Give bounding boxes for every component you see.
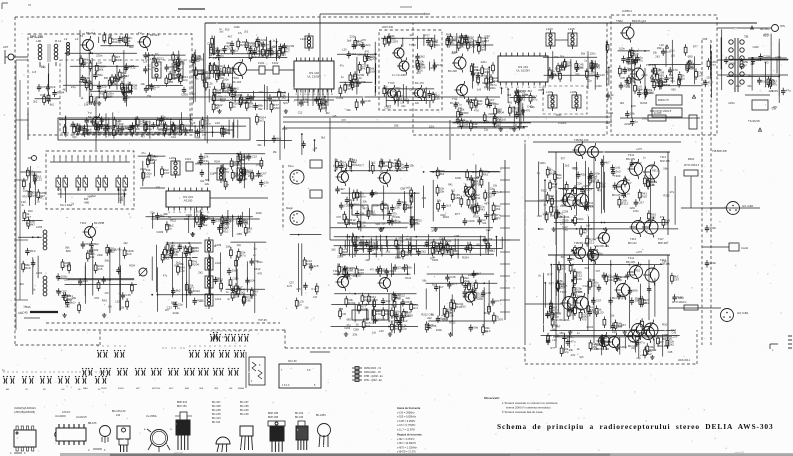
svg-text:4k7: 4k7 <box>350 198 355 202</box>
svg-text:8k2: 8k2 <box>494 217 499 221</box>
svg-text:C12: C12 <box>589 240 595 244</box>
svg-text:100n: 100n <box>352 222 359 226</box>
svg-text:R10: R10 <box>306 262 312 266</box>
svg-text:SFC-50: SFC-50 <box>288 360 297 363</box>
svg-text:R10: R10 <box>320 101 326 105</box>
svg-text:8k2: 8k2 <box>94 242 99 246</box>
svg-text:TR: TR <box>744 35 749 39</box>
svg-text:15k: 15k <box>409 164 414 168</box>
svg-text:R204: R204 <box>214 161 220 164</box>
svg-text:R41: R41 <box>322 107 328 111</box>
svg-text:T413: T413 <box>660 155 666 159</box>
svg-text:4k7: 4k7 <box>462 294 467 298</box>
svg-text:220n: 220n <box>273 106 280 110</box>
svg-text:22p: 22p <box>402 326 407 330</box>
svg-text:R204: R204 <box>427 44 433 47</box>
svg-text:3n3: 3n3 <box>604 339 609 343</box>
svg-text:C12: C12 <box>171 135 177 139</box>
svg-text:56k: 56k <box>173 253 178 257</box>
svg-text:R10: R10 <box>100 91 105 95</box>
svg-text:3n3: 3n3 <box>605 343 610 347</box>
svg-text:56k: 56k <box>663 167 668 171</box>
svg-text:C67: C67 <box>385 160 391 164</box>
svg-text:MUTING: MUTING <box>152 388 161 390</box>
svg-text:R204: R204 <box>587 325 594 329</box>
svg-text:BUC: BUC <box>169 388 174 390</box>
svg-text:22p: 22p <box>631 346 636 350</box>
svg-text:15k: 15k <box>344 164 349 168</box>
svg-text:R41: R41 <box>115 58 121 62</box>
svg-text:R10: R10 <box>484 311 490 315</box>
svg-text:AWS-303-1: AWS-303-1 <box>678 359 691 362</box>
svg-text:100n: 100n <box>619 47 625 51</box>
svg-text:C12: C12 <box>485 34 491 38</box>
svg-text:5p6: 5p6 <box>384 206 389 210</box>
svg-text:R41: R41 <box>508 101 513 104</box>
svg-text:R204: R204 <box>30 172 38 176</box>
svg-text:47u: 47u <box>670 190 675 194</box>
svg-text:R204: R204 <box>348 301 356 305</box>
svg-text:33k: 33k <box>234 295 239 299</box>
svg-text:C12: C12 <box>207 41 212 45</box>
svg-text:22p: 22p <box>617 278 622 282</box>
svg-text:12k: 12k <box>422 196 427 200</box>
svg-text:4k7: 4k7 <box>351 52 356 56</box>
svg-text:C12: C12 <box>37 178 43 182</box>
svg-text:L20: L20 <box>589 74 594 78</box>
svg-text:1u: 1u <box>458 102 462 106</box>
svg-text:15k: 15k <box>630 112 635 116</box>
svg-text:BDP-395: BDP-395 <box>268 412 279 415</box>
svg-text:C88: C88 <box>353 327 359 331</box>
svg-text:R312: R312 <box>344 273 351 277</box>
svg-text:8k2: 8k2 <box>451 190 456 193</box>
svg-text:C45: C45 <box>23 189 28 193</box>
svg-text:C12: C12 <box>225 44 230 48</box>
svg-text:R10: R10 <box>116 119 121 123</box>
svg-text:220n: 220n <box>624 122 631 126</box>
svg-text:GO 4-8Ω: GO 4-8Ω <box>742 204 753 208</box>
svg-text:3n3: 3n3 <box>402 207 407 210</box>
svg-text:47u: 47u <box>155 52 160 56</box>
svg-text:5p6: 5p6 <box>669 74 674 77</box>
svg-text:1u: 1u <box>132 126 136 130</box>
svg-text:33k: 33k <box>146 168 151 172</box>
svg-text:x-5.95 = 6.2MHz: x-5.95 = 6.2MHz <box>397 420 416 423</box>
svg-text:L7: L7 <box>150 57 154 61</box>
svg-text:BF-194: BF-194 <box>295 412 304 415</box>
svg-text:47u: 47u <box>638 59 643 63</box>
svg-text:C67: C67 <box>596 270 601 273</box>
svg-text:8k2: 8k2 <box>200 220 205 224</box>
svg-text:WD: WD <box>556 113 562 117</box>
svg-text:L20: L20 <box>598 311 603 315</box>
svg-text:C12: C12 <box>583 284 589 288</box>
svg-text:WS: WS <box>780 24 785 28</box>
svg-text:C12: C12 <box>577 274 583 278</box>
svg-text:R312: R312 <box>541 189 547 192</box>
svg-text:4k7: 4k7 <box>605 160 610 164</box>
svg-text:1k: 1k <box>254 292 258 296</box>
svg-text:C88: C88 <box>64 278 70 282</box>
svg-text:4k7: 4k7 <box>228 283 233 287</box>
svg-text:22p: 22p <box>446 311 451 315</box>
svg-text:R10: R10 <box>431 66 436 70</box>
svg-text:C12: C12 <box>612 330 618 334</box>
svg-text:R312: R312 <box>652 169 659 173</box>
svg-text:C88: C88 <box>662 260 667 264</box>
svg-text:47u: 47u <box>570 340 575 344</box>
svg-text:2k2: 2k2 <box>450 298 455 302</box>
svg-text:R41: R41 <box>102 298 108 302</box>
svg-text:MEBA: MEBA <box>238 387 245 390</box>
svg-text:22p: 22p <box>575 73 580 76</box>
svg-text:C88: C88 <box>237 232 243 236</box>
svg-text:1n5: 1n5 <box>145 175 150 179</box>
svg-text:220n: 220n <box>148 154 154 157</box>
svg-text:L20: L20 <box>98 126 103 130</box>
svg-text:2k2: 2k2 <box>669 342 674 346</box>
svg-text:56k: 56k <box>555 66 560 70</box>
svg-text:BD-109: BD-109 <box>626 260 635 264</box>
svg-text:Regiuni de frecventa: Regiuni de frecventa <box>397 434 422 437</box>
svg-text:+27V: +27V <box>636 250 642 254</box>
svg-text:-10V: -10V <box>570 354 576 357</box>
svg-text:220n: 220n <box>258 91 264 94</box>
svg-text:x-f63 = 10.66kHz: x-f63 = 10.66kHz <box>397 442 417 445</box>
svg-text:12k: 12k <box>381 222 386 226</box>
svg-text:10k: 10k <box>94 248 99 252</box>
svg-text:R312: R312 <box>405 277 411 280</box>
svg-text:C12: C12 <box>109 249 115 253</box>
svg-text:R41: R41 <box>475 196 481 200</box>
svg-text:R312: R312 <box>449 321 456 325</box>
svg-text:2k2: 2k2 <box>249 95 254 99</box>
svg-text:22p: 22p <box>150 211 155 215</box>
svg-text:R41: R41 <box>483 173 489 177</box>
svg-text:1n5: 1n5 <box>287 284 292 288</box>
svg-text:C67: C67 <box>215 104 221 108</box>
svg-text:BF-214: BF-214 <box>86 31 96 35</box>
svg-text:Schema de principiu a radiorec: Schema de principiu a radioreceptorului … <box>497 422 774 431</box>
svg-text:R10: R10 <box>461 306 466 309</box>
svg-text:8k2: 8k2 <box>176 289 181 293</box>
svg-text:1k: 1k <box>432 283 436 287</box>
svg-text:56k: 56k <box>473 39 478 43</box>
svg-text:2002 BF-195: 2002 BF-195 <box>248 175 263 178</box>
svg-text:8k2: 8k2 <box>265 52 270 56</box>
svg-text:UL1200N: UL1200N <box>55 415 66 418</box>
svg-text:C209: C209 <box>455 177 462 180</box>
svg-text:C12: C12 <box>649 164 655 168</box>
svg-text:R41: R41 <box>352 158 358 162</box>
svg-text:C67: C67 <box>357 273 362 277</box>
svg-text:R41: R41 <box>437 63 443 67</box>
svg-text:BC-413: BC-413 <box>212 417 221 420</box>
svg-text:1u: 1u <box>429 326 433 330</box>
svg-text:R204: R204 <box>431 39 439 43</box>
svg-text:100n: 100n <box>433 43 440 47</box>
svg-text:R204: R204 <box>585 188 593 192</box>
svg-text:C209: C209 <box>576 183 582 186</box>
svg-text:12k: 12k <box>650 183 655 187</box>
svg-text:R312: R312 <box>571 306 579 310</box>
svg-text:1u: 1u <box>253 247 257 251</box>
svg-text:BCP-395: BCP-395 <box>660 160 670 163</box>
svg-text:12k: 12k <box>357 76 362 80</box>
svg-text:C12: C12 <box>158 128 164 132</box>
svg-text:1u: 1u <box>374 191 378 195</box>
svg-text:3n3: 3n3 <box>416 71 421 75</box>
svg-text:12k: 12k <box>404 263 409 267</box>
svg-text:22p: 22p <box>406 296 411 300</box>
svg-text:470: 470 <box>641 330 646 334</box>
svg-text:15k: 15k <box>495 207 500 211</box>
svg-text:33k: 33k <box>390 34 395 38</box>
svg-text:Picu: Picu <box>288 164 294 168</box>
svg-text:R10: R10 <box>223 230 229 234</box>
svg-text:12k: 12k <box>150 161 155 165</box>
svg-text:33k: 33k <box>106 277 111 281</box>
svg-text:1u: 1u <box>221 54 225 58</box>
svg-text:4k7: 4k7 <box>655 78 660 82</box>
svg-text:L20: L20 <box>606 273 611 277</box>
svg-text:12k: 12k <box>143 60 148 64</box>
svg-text:33k: 33k <box>657 46 662 50</box>
svg-text:470: 470 <box>220 99 225 103</box>
svg-text:680: 680 <box>688 54 693 58</box>
svg-text:T409: T409 <box>614 174 621 178</box>
svg-text:220n: 220n <box>97 253 103 257</box>
svg-text:220n: 220n <box>364 298 371 302</box>
svg-text:1n5: 1n5 <box>405 186 410 190</box>
svg-text:5p6: 5p6 <box>72 136 77 139</box>
svg-text:T703: T703 <box>388 81 395 85</box>
svg-text:L20: L20 <box>537 214 542 218</box>
svg-text:C45: C45 <box>668 350 673 354</box>
svg-text:22p: 22p <box>71 85 76 89</box>
svg-text:C12: C12 <box>154 84 160 88</box>
svg-text:470: 470 <box>525 108 530 112</box>
svg-text:BB-105: BB-105 <box>88 422 97 425</box>
svg-text:12k: 12k <box>386 299 391 303</box>
svg-text:C45: C45 <box>339 308 344 311</box>
svg-text:C209: C209 <box>392 164 400 168</box>
svg-text:A3100: A3100 <box>184 199 193 203</box>
svg-text:C209: C209 <box>336 96 343 100</box>
svg-text:47u: 47u <box>141 152 146 155</box>
svg-text:R41: R41 <box>480 208 486 212</box>
svg-text:T413: T413 <box>630 237 636 241</box>
svg-text:R77: R77 <box>693 45 698 49</box>
svg-text:1u: 1u <box>148 67 152 71</box>
svg-text:CD: CD <box>25 389 29 391</box>
svg-text:x-11.7 = 11.97M: x-11.7 = 11.97M <box>397 429 415 432</box>
svg-text:L20: L20 <box>383 202 388 206</box>
svg-text:12k: 12k <box>558 215 563 219</box>
svg-text:220n: 220n <box>350 35 357 39</box>
svg-text:2k2: 2k2 <box>147 65 152 68</box>
svg-text:22p: 22p <box>389 269 394 273</box>
svg-text:T4B BD-100: T4B BD-100 <box>574 138 589 142</box>
svg-text:C67: C67 <box>164 171 170 175</box>
svg-text:3n3: 3n3 <box>592 310 597 314</box>
svg-text:C45: C45 <box>581 227 587 231</box>
svg-text:R204: R204 <box>468 273 475 277</box>
svg-text:220n: 220n <box>140 167 147 171</box>
svg-text:56k: 56k <box>196 136 201 140</box>
svg-text:33k: 33k <box>366 324 371 328</box>
svg-text:R41: R41 <box>116 132 122 136</box>
svg-text:C209: C209 <box>671 334 678 338</box>
svg-text:2k2: 2k2 <box>354 84 359 88</box>
svg-text:B5: B5 <box>28 3 32 7</box>
svg-text:W747-290/2.2: W747-290/2.2 <box>672 302 687 304</box>
svg-text:C45: C45 <box>94 296 99 300</box>
svg-text:3n3: 3n3 <box>446 204 451 208</box>
svg-text:BC-170: BC-170 <box>415 81 424 85</box>
svg-text:10k: 10k <box>400 319 405 323</box>
svg-text:4k7: 4k7 <box>340 187 345 191</box>
svg-text:B404 W747-290/2.5: B404 W747-290/2.5 <box>650 110 672 113</box>
svg-text:22p: 22p <box>565 63 570 67</box>
svg-text:R312: R312 <box>649 348 657 352</box>
svg-text:470: 470 <box>474 109 479 113</box>
svg-text:R312: R312 <box>473 214 480 218</box>
svg-text:5p6: 5p6 <box>191 121 196 125</box>
svg-text:100n: 100n <box>492 102 499 106</box>
svg-text:R10: R10 <box>662 322 668 326</box>
svg-text:L206: L206 <box>169 156 176 160</box>
svg-text:4k7: 4k7 <box>439 285 444 289</box>
svg-text:BF-194: BF-194 <box>232 80 242 84</box>
svg-text:33k: 33k <box>460 118 465 122</box>
svg-text:L104: L104 <box>546 90 553 94</box>
svg-text:56k: 56k <box>552 328 557 332</box>
svg-text:R41: R41 <box>554 56 559 59</box>
svg-text:1n5: 1n5 <box>698 74 703 78</box>
svg-text:56k: 56k <box>248 46 253 50</box>
svg-text:2k2: 2k2 <box>123 241 128 245</box>
svg-text:56k: 56k <box>82 76 87 80</box>
svg-text:470: 470 <box>582 318 587 322</box>
svg-text:220n: 220n <box>567 335 574 339</box>
svg-text:47u: 47u <box>660 215 665 219</box>
svg-text:GH: GH <box>61 389 65 391</box>
svg-text:22p: 22p <box>180 269 185 273</box>
svg-text:2k2: 2k2 <box>331 248 336 252</box>
svg-text:33k: 33k <box>569 348 574 352</box>
svg-text:470: 470 <box>370 269 375 272</box>
svg-text:220n: 220n <box>440 214 446 217</box>
svg-text:1n5: 1n5 <box>314 264 319 268</box>
svg-text:100n: 100n <box>710 226 717 230</box>
svg-text:BC-239: BC-239 <box>212 413 221 416</box>
svg-text:1n5: 1n5 <box>463 123 468 127</box>
svg-text:12k: 12k <box>252 42 257 46</box>
svg-text:22p: 22p <box>415 221 420 225</box>
svg-text:100n: 100n <box>357 53 364 57</box>
svg-text:C12: C12 <box>671 328 677 332</box>
svg-text:2007-345: 2007-345 <box>382 25 394 29</box>
svg-text:R41: R41 <box>635 297 641 301</box>
svg-text:C209: C209 <box>392 315 399 319</box>
svg-text:R77: R77 <box>553 309 559 313</box>
svg-text:3n3: 3n3 <box>178 243 183 247</box>
svg-text:3n3: 3n3 <box>413 306 418 310</box>
svg-text:C88: C88 <box>175 57 181 61</box>
svg-text:220n: 220n <box>577 217 584 221</box>
svg-text:B404: B404 <box>688 157 695 161</box>
svg-text:GO 0-8Ω: GO 0-8Ω <box>737 311 748 315</box>
svg-text:C209: C209 <box>588 278 595 282</box>
svg-text:10k: 10k <box>140 82 145 86</box>
svg-text:2k2: 2k2 <box>565 163 570 167</box>
svg-text:C209: C209 <box>477 297 484 301</box>
svg-text:T1: T1 <box>80 34 84 38</box>
svg-text:R77: R77 <box>359 165 364 168</box>
svg-text:BC-307: BC-307 <box>212 401 221 404</box>
svg-text:33k: 33k <box>232 269 237 273</box>
svg-text:L20: L20 <box>489 213 494 217</box>
svg-text:T201: T201 <box>80 221 87 225</box>
svg-text:33k: 33k <box>179 262 184 266</box>
svg-text:W747-290/2.5: W747-290/2.5 <box>684 164 700 167</box>
svg-text:C45: C45 <box>125 293 131 297</box>
svg-text:x-9.5 = 9.77MHz: x-9.5 = 9.77MHz <box>397 424 416 427</box>
svg-text:22p: 22p <box>102 85 107 89</box>
svg-text:L4: L4 <box>75 37 79 41</box>
svg-text:22p: 22p <box>458 39 463 43</box>
svg-text:22p: 22p <box>398 265 403 269</box>
svg-text:R77: R77 <box>547 273 553 277</box>
svg-text:C209: C209 <box>370 57 377 61</box>
svg-text:56k: 56k <box>560 55 565 59</box>
svg-text:R77: R77 <box>388 320 394 324</box>
svg-text:BF-314: BF-314 <box>212 421 221 424</box>
svg-text:22p: 22p <box>237 243 242 247</box>
svg-text:3n3: 3n3 <box>584 266 589 270</box>
svg-text:RMN-024F - V2: RMN-024F - V2 <box>364 371 381 374</box>
svg-text:R204: R204 <box>233 163 241 167</box>
svg-text:8k2: 8k2 <box>166 223 171 227</box>
svg-text:F102: F102 <box>272 61 279 65</box>
svg-text:1u: 1u <box>235 48 239 52</box>
svg-text:T411: T411 <box>628 256 635 260</box>
svg-text:56k: 56k <box>205 178 210 182</box>
svg-text:100n: 100n <box>373 204 379 208</box>
svg-text:C45: C45 <box>450 275 456 279</box>
svg-text:22p: 22p <box>408 205 413 209</box>
svg-text:C209: C209 <box>157 230 164 234</box>
svg-text:680: 680 <box>443 317 448 321</box>
svg-text:3n3: 3n3 <box>396 296 401 300</box>
svg-text:L212: L212 <box>215 297 222 301</box>
svg-text:5p6: 5p6 <box>375 222 380 226</box>
svg-text:C12: C12 <box>311 287 317 291</box>
svg-text:12k: 12k <box>204 182 209 186</box>
svg-text:C45: C45 <box>463 195 468 198</box>
svg-text:10k: 10k <box>396 215 401 219</box>
svg-text:C88: C88 <box>488 112 494 116</box>
svg-text:15k: 15k <box>244 222 249 226</box>
svg-text:5p6: 5p6 <box>592 175 597 179</box>
svg-text:470: 470 <box>597 189 602 193</box>
svg-text:15k: 15k <box>558 279 563 283</box>
svg-text:56k: 56k <box>473 325 478 329</box>
svg-text:C209: C209 <box>384 106 391 110</box>
svg-text:1u: 1u <box>682 77 686 81</box>
